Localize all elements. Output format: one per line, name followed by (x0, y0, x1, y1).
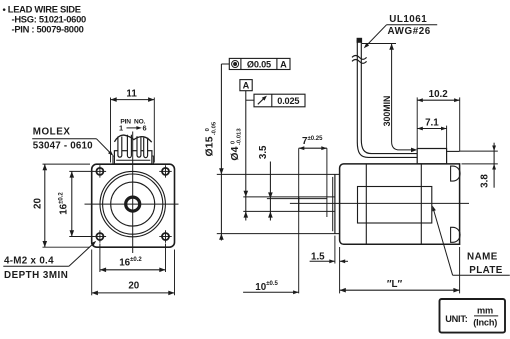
connector wire loop 4 (144, 138, 148, 158)
mounting hole top-left (94, 165, 106, 177)
dim L text (387, 279, 403, 290)
dim 10.2 text (429, 89, 449, 100)
svg-text:3.8: 3.8 (480, 174, 491, 188)
svg-text:″L″: ″L″ (387, 279, 403, 290)
dim 20 left extension lines (43, 164, 91, 247)
dim 20 bottom line (92, 291, 175, 296)
terminal block (417, 149, 446, 164)
extension line flat end (326, 148, 328, 217)
lead wire top cap (357, 38, 362, 42)
name plate label (432, 206, 510, 276)
dim 20 bottom text (128, 280, 139, 291)
pilot circle O15 (103, 174, 163, 234)
svg-text:1: 1 (119, 124, 123, 133)
dimension 11 text (126, 89, 137, 100)
connector wire bundle crest (114, 135, 151, 142)
svg-text:0: 0 (205, 127, 211, 131)
dim 1.5 line (310, 259, 348, 263)
svg-text:UL1061: UL1061 (389, 14, 427, 25)
svg-text:Ø4: Ø4 (230, 146, 241, 160)
dim 7 line (299, 146, 327, 150)
svg-text:Ø15: Ø15 (205, 136, 216, 156)
dim 3.8 text (480, 174, 491, 188)
label UL1061 AWG26 (364, 14, 437, 48)
svg-text:NAME: NAME (467, 252, 498, 263)
name plate rectangle (358, 187, 432, 224)
connector wire loop 3 (137, 136, 141, 157)
dim 16 bottom text (119, 257, 142, 268)
dim 20 left line (43, 164, 48, 247)
dim O15 line (219, 64, 224, 241)
dim 1.5 extension line (334, 236, 336, 264)
molex label text (33, 126, 93, 151)
svg-text:3.5: 3.5 (258, 145, 269, 159)
dim 7.1 line (417, 127, 446, 131)
svg-text:7±0.25: 7±0.25 (302, 136, 323, 147)
svg-text:20: 20 (128, 280, 139, 291)
svg-text:1.5: 1.5 (311, 252, 325, 263)
connector housing MOLEX (113, 151, 153, 164)
front view flange square (92, 164, 175, 247)
svg-text:4-M2 x 0.4: 4-M2 x 0.4 (4, 256, 54, 267)
dim 7.1 text (425, 117, 439, 128)
side view rear seam (420, 164, 422, 244)
wire break symbol (352, 56, 367, 64)
dim 10.2 extension lines (417, 97, 460, 151)
concentricity frame (221, 58, 290, 69)
svg-text:-0.05: -0.05 (211, 121, 217, 135)
lead wire 2 (361, 40, 417, 154)
dim 7.1 extension line (446, 126, 448, 148)
lead wire 1 (357, 40, 417, 157)
svg-text:UNIT:: UNIT: (445, 314, 468, 324)
side view centerline (290, 202, 469, 204)
dim O15 text (205, 121, 218, 156)
molex leader (32, 139, 113, 156)
dim 7 text (302, 136, 323, 147)
svg-text:53047 - 0610: 53047 - 0610 (33, 140, 93, 151)
svg-text:(Inch): (Inch) (473, 318, 497, 328)
rear tab bottom D (451, 227, 460, 242)
rear tab top D (451, 166, 460, 181)
dim 3.5 line (268, 162, 273, 221)
dimension 11 extension lines (111, 98, 155, 163)
dim 1.5 text (311, 252, 325, 263)
dim 16 left text (58, 192, 69, 215)
label 4-M2 (4, 256, 68, 281)
front view horizontal centerline (85, 203, 179, 205)
svg-text:7.1: 7.1 (425, 117, 439, 128)
dim 20 bottom extension lines (92, 250, 175, 296)
text 300MIN (382, 96, 392, 127)
svg-text:A: A (280, 60, 287, 70)
svg-text:AWG#26: AWG#26 (388, 26, 431, 37)
svg-text:20: 20 (33, 198, 44, 209)
svg-text:-0.013: -0.013 (236, 128, 242, 145)
dim 16 left extension lines (69, 171, 94, 236)
datum A box (240, 80, 252, 91)
svg-text:-PIN : 50079-8000: -PIN : 50079-8000 (12, 24, 84, 35)
dim 10.2 line (417, 98, 460, 102)
mounting hole bottom-right (159, 230, 171, 242)
dim O4 text (230, 128, 243, 161)
note lead wire side (3, 4, 86, 35)
bearing boss circle (111, 182, 155, 226)
side view front seam (365, 164, 367, 244)
svg-text:10±0.5: 10±0.5 (255, 281, 278, 293)
shaft circle O4 bold (126, 197, 140, 211)
svg-text:Ø0.05: Ø0.05 (247, 60, 271, 70)
dim 20 left text (33, 198, 44, 209)
dim 16 bottom line (100, 268, 166, 273)
body silhouette circle outer (100, 171, 165, 236)
connector wire loop 1 (118, 137, 122, 158)
shaft outline (243, 197, 335, 212)
svg-text:mm: mm (477, 305, 493, 315)
label 4-M2 leader (3, 241, 96, 266)
svg-text:0.025: 0.025 (277, 96, 299, 106)
mounting hole top-right (159, 165, 171, 177)
dimension 11 line (111, 97, 155, 102)
svg-text:MOLEX: MOLEX (33, 126, 71, 137)
pin 1 to 6 arrow (119, 124, 147, 133)
svg-text:PLATE: PLATE (469, 265, 502, 276)
runout frame (246, 94, 305, 107)
front view vertical centerline (132, 132, 134, 254)
unit box (440, 299, 506, 333)
terminal cover strip (447, 150, 460, 152)
svg-text:10.2: 10.2 (429, 89, 449, 100)
dim 3.5 text (258, 145, 269, 159)
dim 10 text (255, 281, 278, 293)
dim L line (340, 288, 460, 293)
mounting hole bottom-left (94, 230, 106, 242)
leader 300MIN (362, 44, 417, 153)
svg-text:DEPTH 3MIN: DEPTH 3MIN (4, 270, 68, 281)
svg-text:A: A (243, 81, 250, 91)
dim 3.8 line (492, 143, 496, 188)
side view body outline (340, 164, 460, 244)
dim 16 bottom extension lines (100, 244, 166, 273)
dim L extension lines (340, 247, 460, 293)
svg-text:300MIN: 300MIN (382, 96, 392, 127)
svg-text:6: 6 (143, 124, 147, 133)
pilot boss outline (217, 174, 340, 233)
dim 16 left line (70, 171, 75, 236)
extension line shaft tip (298, 148, 300, 293)
pin no label (120, 118, 145, 125)
svg-text:16±0.2: 16±0.2 (58, 192, 69, 215)
dim O4 line (244, 91, 249, 221)
svg-text:16±0.2: 16±0.2 (119, 257, 142, 268)
svg-text:0: 0 (230, 140, 236, 144)
svg-text:11: 11 (126, 89, 137, 100)
connector wire loop 2 (127, 135, 131, 158)
dim 3.8 extension lines (460, 151, 498, 164)
dim 10 line (243, 290, 299, 294)
